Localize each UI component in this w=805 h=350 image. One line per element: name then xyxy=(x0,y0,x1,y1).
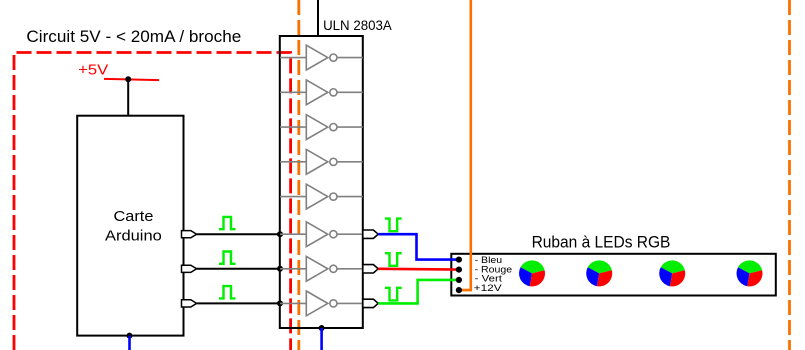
wire +5V to Arduino xyxy=(127,79,129,115)
wire green ULN out8 to Vert terminal xyxy=(378,280,459,304)
wire ULN common top xyxy=(317,0,319,36)
junction dot ULN input 8 xyxy=(277,300,283,306)
buffer channel 3 xyxy=(280,115,363,140)
ULN pin output 8 xyxy=(363,299,378,307)
Arduino pin output 2 xyxy=(182,265,197,272)
junction dot ULN input 6 xyxy=(277,231,283,237)
wire Arduino pin1 to ULN input 6 xyxy=(197,233,280,235)
wire Arduino pin3 to ULN input 8 xyxy=(197,302,280,304)
svg-text:- Bleu: - Bleu xyxy=(475,255,503,265)
junction dot ULN input 7 xyxy=(277,266,283,272)
ULN pin output 6 xyxy=(363,230,378,238)
svg-text:- Vert: - Vert xyxy=(475,274,503,284)
junction dot Arduino GND xyxy=(127,333,133,339)
svg-text:ULN 2803A: ULN 2803A xyxy=(323,17,392,33)
wire ULN GND down xyxy=(320,328,323,350)
wire Arduino pin2 to ULN input 7 xyxy=(197,268,280,270)
RGB LED 1 xyxy=(519,260,545,286)
Arduino pin output 3 xyxy=(182,300,197,307)
buffer channel 5 xyxy=(280,184,363,209)
inverted pulse symbol output 1 xyxy=(385,219,402,232)
inverted pulse symbol output 2 xyxy=(385,253,402,266)
junction dot ULN GND xyxy=(319,325,325,331)
pulse symbol input 1 xyxy=(219,217,236,229)
terminal dot Vert xyxy=(456,277,462,283)
svg-text:Circuit 5V - < 20mA / broche: Circuit 5V - < 20mA / broche xyxy=(26,28,241,46)
RGB LED 4 xyxy=(737,260,763,286)
terminal dot Bleu xyxy=(456,257,462,263)
pulse symbol input 3 xyxy=(219,286,236,298)
buffer channel 8 xyxy=(280,291,363,316)
wire red ULN out7 to Rouge terminal xyxy=(378,267,459,270)
ULN 2803A chip box xyxy=(280,36,363,328)
ULN pin output 7 xyxy=(363,265,378,273)
wire orange +12V supply xyxy=(459,0,471,290)
buffer channel 2 xyxy=(280,80,363,105)
RGB LED 2 xyxy=(586,260,612,286)
net boundary: orange dashed separator left xyxy=(297,0,300,350)
net boundary: red dashed 5V circuit outline xyxy=(14,53,291,350)
svg-text:Carte: Carte xyxy=(114,209,154,225)
+5V supply rail xyxy=(104,79,159,80)
LED strip box xyxy=(451,254,776,296)
svg-text:Arduino: Arduino xyxy=(105,229,162,245)
buffer channel 1 xyxy=(280,45,363,70)
terminal dot 12V xyxy=(456,287,462,293)
inverted pulse symbol output 3 xyxy=(385,288,402,301)
terminal dot Rouge xyxy=(456,267,462,273)
Arduino pin output 1 xyxy=(182,231,197,238)
buffer channel 6 xyxy=(280,222,363,247)
buffer channel 7 xyxy=(280,256,363,281)
buffer channel 4 xyxy=(280,149,363,174)
junction dot +5V xyxy=(125,76,131,82)
wire Arduino GND down xyxy=(128,336,131,350)
svg-text:+5V: +5V xyxy=(78,62,108,78)
svg-text:+12V: +12V xyxy=(474,283,503,293)
wire blue ULN out6 to Bleu terminal xyxy=(378,234,459,259)
svg-text:Ruban à LEDs RGB: Ruban à LEDs RGB xyxy=(532,234,671,252)
RGB LED 3 xyxy=(659,260,685,286)
pulse symbol input 2 xyxy=(219,252,236,264)
net boundary: orange dashed separator right xyxy=(788,0,791,350)
Arduino board box xyxy=(77,116,183,336)
